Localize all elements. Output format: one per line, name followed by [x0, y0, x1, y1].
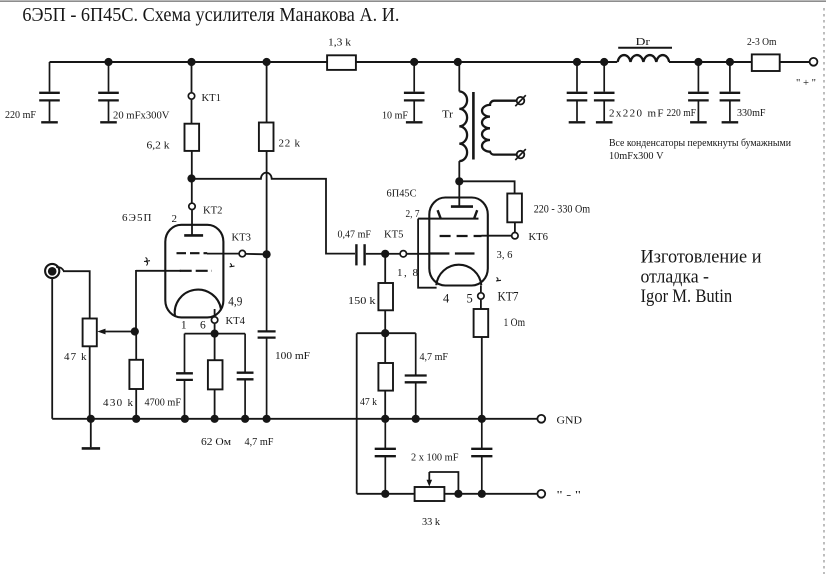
svg-text:220 mF: 220 mF	[5, 109, 36, 121]
svg-text:2 x 100 mF: 2 x 100 mF	[411, 452, 459, 464]
wire Tr primary to anode node	[458, 161, 460, 181]
transformer Tr primary winding	[459, 92, 467, 162]
potentiometer 33 k body	[415, 487, 445, 501]
node 22k top junction	[263, 58, 271, 66]
svg-text:10 mF: 10 mF	[382, 110, 408, 122]
resistor 6,2 k	[185, 124, 200, 151]
svg-text:6П45С: 6П45С	[387, 188, 417, 200]
tube V2 cathode dome	[436, 265, 481, 285]
node KT5 junction	[381, 250, 389, 258]
svg-text:2-3 Om: 2-3 Om	[747, 36, 777, 48]
wire beam plate to cathode	[418, 219, 437, 288]
node KT3 junction on 22k line	[263, 250, 271, 258]
node anode of 6П45С	[455, 177, 463, 185]
test point KT7	[478, 293, 484, 299]
wire top B+ rail output section	[780, 61, 810, 63]
tube V2 beam plates	[418, 210, 478, 218]
svg-text:10mFх300 V: 10mFх300 V	[609, 150, 664, 162]
svg-text:4700 mF: 4700 mF	[145, 397, 182, 409]
ground symbol	[82, 419, 100, 449]
test point KT4	[211, 317, 217, 323]
node psu cap D	[726, 58, 734, 66]
terminal speaker top	[515, 95, 526, 106]
pot wiper arrowhead	[97, 329, 105, 335]
node 4,7mF2-gnd	[412, 415, 420, 423]
resistor 1,3 k	[327, 55, 356, 70]
node 10mF junction	[410, 58, 418, 66]
tube V1 plate	[184, 210, 203, 235]
svg-text:1,3 k: 1,3 k	[328, 37, 352, 49]
svg-text:KT7: KT7	[498, 289, 519, 304]
capacitor 2x100 mF left	[375, 419, 396, 494]
test point KT3	[239, 250, 245, 256]
inductor Dr choke	[618, 55, 670, 62]
wire KT5 node to test point	[385, 253, 399, 255]
svg-text:220 - 330 Om: 220 - 330 Om	[534, 203, 591, 215]
svg-text:2, 7: 2, 7	[406, 208, 420, 220]
node 1Om-gnd	[478, 415, 486, 423]
svg-text:2x220 mF: 2x220 mF	[609, 108, 664, 120]
wire KT5 node down to 150k	[384, 254, 386, 283]
svg-text:" - ": " - "	[557, 489, 582, 501]
svg-text:220 mF: 220 mF	[667, 107, 697, 119]
terminal speaker bottom	[515, 149, 526, 160]
wire cathode node bus	[185, 333, 246, 335]
svg-text:47 k: 47 k	[360, 396, 377, 408]
wire 1 Om to gnd rail	[481, 337, 483, 419]
svg-text:33 k: 33 k	[422, 516, 440, 528]
terminal plus output	[810, 58, 818, 66]
svg-text:Igor M. Butin: Igor M. Butin	[641, 287, 733, 307]
svg-text:330mF: 330mF	[737, 107, 766, 119]
wire minus row right	[444, 493, 537, 495]
node psu cap C	[694, 58, 702, 66]
capacitor 4700 mF	[176, 334, 193, 419]
terminal GND	[537, 415, 545, 423]
svg-text:47 k: 47 k	[64, 351, 87, 363]
svg-text:6: 6	[200, 319, 206, 331]
node 47k-gnd	[381, 415, 389, 423]
capacitor 2x220 mF B	[594, 62, 615, 122]
wire top B+ rail middle section	[356, 61, 617, 63]
wire screen resistor to KT6	[514, 222, 516, 232]
tube V2 plate	[451, 185, 473, 207]
node 100mF-minus right	[478, 490, 486, 498]
test point KT6	[512, 233, 518, 239]
transformer Tr core	[472, 92, 475, 160]
wire V1 screen to KT3	[207, 253, 239, 255]
mark smudge right in V1	[230, 264, 235, 268]
potentiometer 47 k body	[83, 319, 97, 347]
inductor Dr core line	[618, 47, 672, 49]
resistor 220 - 330 Om	[507, 194, 522, 223]
svg-text:100 mF: 100 mF	[275, 350, 310, 362]
resistor 1 Om	[474, 309, 489, 337]
capacitor 4,7 mF feedback	[405, 333, 427, 419]
wire rail to Tr primary	[458, 62, 460, 92]
svg-text:1 Om: 1 Om	[504, 317, 526, 329]
capacitor 2x220 mF A	[567, 62, 588, 122]
node 100mF-gnd	[263, 415, 271, 423]
svg-text:KT6: KT6	[529, 231, 549, 243]
node Tr primary top	[454, 58, 462, 66]
wire 22k to KT3 node	[266, 151, 268, 254]
wire KT5 to grid of 6П45С	[407, 253, 430, 255]
wire 150k to mid node	[384, 310, 386, 333]
svg-text:20 mFx300V: 20 mFx300V	[113, 110, 170, 122]
wire top B+ rail left section	[50, 61, 328, 63]
wire V2 screen to KT6	[482, 235, 512, 237]
svg-text:отладка -: отладка -	[641, 268, 710, 288]
wire pot wiper arm	[104, 331, 135, 333]
tube V1 cathode dome	[175, 290, 221, 317]
svg-text:1, 8: 1, 8	[397, 267, 419, 279]
svg-text:KT3: KT3	[232, 232, 252, 244]
svg-text:4,9: 4,9	[228, 294, 242, 308]
svg-text:6Э5П: 6Э5П	[122, 212, 152, 224]
resistor 22 k	[259, 123, 274, 152]
svg-text:" + ": " + "	[796, 77, 816, 89]
wire KT1 to 6,2k	[191, 100, 193, 124]
mark smudge left of V1	[144, 258, 150, 266]
svg-text:4: 4	[443, 292, 450, 306]
svg-text:4,7 mF: 4,7 mF	[245, 436, 274, 448]
tube 6Э5П envelope	[165, 225, 223, 318]
test point KT2	[189, 203, 195, 209]
node wiper junction	[131, 327, 139, 335]
wire cathode to KT7	[480, 286, 482, 293]
svg-text:430 k: 430 k	[103, 397, 134, 409]
wire rail to 22k	[266, 62, 268, 123]
pot 33k wiper	[427, 472, 459, 494]
wire GND rail	[52, 418, 537, 420]
node pot-gnd	[87, 415, 95, 423]
wire 6,2k to anode node	[191, 151, 193, 179]
svg-text:150 k: 150 k	[348, 295, 376, 307]
wire KT3 to 22k node	[246, 253, 267, 255]
capacitor 220 mF psu	[688, 62, 709, 122]
tube V2 control grid dashed	[430, 252, 476, 254]
wire feedback drop to minus row	[356, 333, 358, 494]
node 4,7mF-gnd	[241, 415, 249, 423]
svg-text:KT5: KT5	[384, 229, 404, 241]
tube 6П45С envelope	[429, 198, 488, 286]
svg-text:KT1: KT1	[202, 92, 222, 104]
resistor 430 k	[129, 332, 143, 419]
wire KT7 to 1 Om	[480, 300, 482, 309]
node cathode junction	[211, 330, 219, 338]
capacitor 4,7 mF cathode	[237, 334, 254, 419]
svg-text:Все конденсаторы перемкнуты бу: Все конденсаторы перемкнуты бумажными	[609, 137, 791, 149]
node 4700mF-gnd	[181, 415, 189, 423]
svg-text:GND: GND	[557, 415, 583, 427]
wire anode node to screen resistor	[459, 181, 514, 193]
resistor 2-3 Om	[752, 54, 780, 71]
wire grid drop to wiper	[135, 270, 137, 332]
resistor 150 k	[378, 283, 393, 310]
tube V2 screen grid dashed	[440, 235, 482, 237]
wire top B+ rail right section	[669, 61, 752, 63]
capacitor 20 mFx300V	[98, 62, 119, 122]
node psu cap B	[600, 58, 608, 66]
svg-text:6Э5П - 6П45С. Схема усилителя: 6Э5П - 6П45С. Схема усилителя Манакова А…	[22, 5, 399, 26]
node psu cap A	[573, 58, 581, 66]
terminal minus	[537, 490, 545, 498]
tube V1 screen grid dashed	[177, 252, 208, 254]
svg-text:Изготовление и: Изготовление и	[641, 248, 762, 268]
scan border top	[0, 0, 826, 2]
node 100mF-minus left	[381, 490, 389, 498]
capacitor 330mF	[720, 62, 741, 122]
scan border right dotted	[823, 8, 825, 574]
wire KT4 to cathode node	[214, 324, 216, 334]
node feedback junction	[381, 329, 389, 337]
wire mid node bus	[357, 332, 416, 334]
node anode of 6Э5П	[187, 174, 195, 182]
wire cathode to KT4	[214, 309, 216, 317]
node wiper-minus	[454, 490, 462, 498]
svg-text:22 k: 22 k	[279, 138, 301, 150]
wire V1 grid out left	[136, 270, 181, 272]
tube V1 control grid dashed	[180, 270, 212, 272]
test point KT1	[188, 93, 194, 99]
svg-text:KT4: KT4	[226, 315, 246, 327]
capacitor 2x100 mF right	[471, 419, 492, 494]
svg-text:62 Ом: 62 Ом	[201, 436, 231, 448]
svg-text:0,47 mF: 0,47 mF	[338, 229, 372, 241]
wire jack to pot top	[63, 271, 90, 318]
resistor 47 k feedback	[378, 333, 393, 419]
node 62Om-gnd	[211, 415, 219, 423]
svg-text:2: 2	[172, 213, 178, 225]
wire anode to coupling cap with hop	[192, 173, 356, 254]
capacitor 0,47 mF	[356, 244, 381, 265]
wire minus row left	[357, 493, 415, 495]
capacitor 10 mF	[404, 62, 425, 122]
node 430k-gnd	[132, 415, 140, 423]
node 20mF junction	[104, 58, 112, 66]
wire pot bottom to ground rail	[89, 346, 91, 419]
mark smudge near V2 cathode	[496, 278, 501, 282]
svg-text:4,7 mF: 4,7 mF	[420, 351, 449, 363]
svg-text:1: 1	[181, 319, 187, 331]
svg-text:Tr: Tr	[442, 109, 453, 121]
test point KT5	[400, 251, 406, 257]
wire anode node to KT2	[191, 179, 193, 203]
transformer Tr secondary winding	[482, 101, 517, 155]
capacitor 220 mF	[39, 62, 60, 122]
svg-text:6,2 k: 6,2 k	[147, 140, 171, 152]
node 6,2k top junction	[187, 58, 195, 66]
svg-text:KT2: KT2	[203, 205, 223, 217]
wire jack sleeve down	[51, 278, 53, 419]
wire rail to KT1	[191, 62, 193, 92]
svg-text:Dr: Dr	[636, 36, 651, 48]
resistor 62 Om cathode	[208, 334, 223, 419]
capacitor 100 mF	[258, 254, 276, 418]
svg-text:3, 6: 3, 6	[497, 249, 513, 261]
svg-text:5: 5	[467, 292, 473, 306]
input jack	[45, 264, 64, 278]
